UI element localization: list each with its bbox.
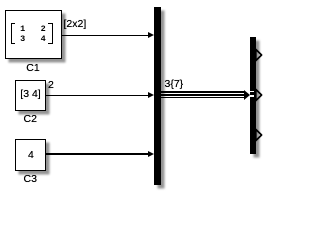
C2 value label [3 4] bbox=[20, 89, 40, 100]
bus arrowhead into Demux bbox=[244, 90, 250, 100]
arrowhead wire2 into Mux bbox=[148, 92, 154, 98]
C1 matrix value 3 bbox=[20, 35, 25, 44]
C1 block name label bbox=[26, 63, 39, 74]
C3 value label 4 bbox=[28, 150, 34, 161]
wire from C2 to Mux bbox=[46, 95, 150, 96]
Demux block (vertical bar) bbox=[250, 37, 256, 155]
constant block C1 bbox=[5, 10, 62, 59]
bus signal label 3{7} bbox=[165, 79, 184, 90]
demux output port arrow 1 bbox=[256, 49, 262, 60]
wire from C1 to Mux bbox=[62, 35, 150, 36]
C1 matrix right bracket bbox=[48, 23, 53, 43]
Mux block (vertical bar) bbox=[154, 7, 161, 185]
arrowhead wire3 into Mux bbox=[148, 151, 154, 157]
bus line middle stroke bbox=[161, 94, 245, 96]
demux output port arrow 3 bbox=[256, 129, 262, 140]
wire from C3 to Mux bbox=[46, 153, 150, 154]
Demux unconnected output port arrows bbox=[0, 0, 275, 194]
C2 block name label bbox=[24, 114, 37, 125]
constant block C2 bbox=[15, 80, 46, 111]
bus line lower stroke bbox=[161, 97, 245, 99]
C3 block name label bbox=[24, 174, 37, 185]
signal dimension label [2x2] bbox=[64, 19, 87, 30]
constant block C3 bbox=[15, 139, 46, 171]
arrowhead wire1 into Mux bbox=[148, 32, 154, 38]
bus gap stripe over Demux (lower) bbox=[250, 95, 254, 96]
C1 matrix value 1 bbox=[20, 25, 25, 34]
signal dimension label 2 bbox=[48, 80, 54, 91]
C1 matrix value 2 bbox=[41, 25, 46, 34]
C1 matrix left bracket bbox=[11, 23, 16, 43]
demux output port arrow 2 bbox=[256, 89, 262, 100]
C1 matrix value 4 bbox=[41, 35, 46, 44]
bus gap stripe over Demux (upper) bbox=[250, 91, 254, 92]
bus line upper stroke bbox=[161, 91, 245, 93]
